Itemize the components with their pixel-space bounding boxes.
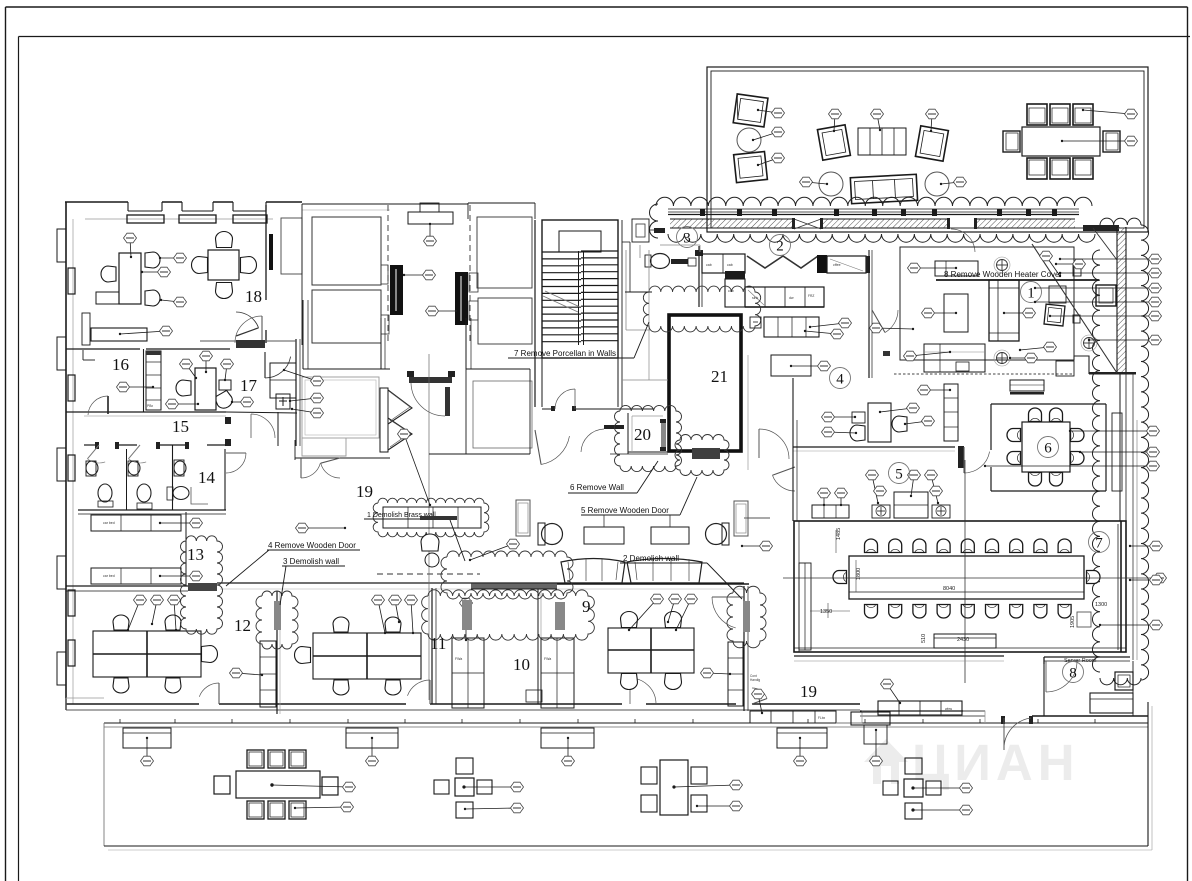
- lounge sofa B scalloped: [627, 559, 702, 584]
- cloud around rooms 20-21 door: [615, 405, 682, 471]
- conference chairs bottom row: [865, 605, 1072, 619]
- annotation 7 remove porcellan in walls: [508, 322, 649, 358]
- svg-text:ЦИАН: ЦИАН: [912, 734, 1080, 791]
- room 18 desk: [96, 253, 141, 304]
- svg-text:13: 13: [187, 545, 204, 564]
- tag outdoor B h: [696, 801, 743, 811]
- outdoor table cluster B vertical: [641, 760, 707, 815]
- kitchen-room4 wall: [869, 250, 872, 328]
- terrace armchair C center-left: [817, 125, 850, 160]
- server room bench: [1090, 693, 1133, 713]
- tag terrace dining chairs: [1082, 109, 1138, 119]
- svg-text:5 Remove Wooden Door: 5 Remove Wooden Door: [581, 506, 669, 515]
- left wall pilaster 3: [57, 448, 66, 481]
- tag bench left: [752, 689, 765, 714]
- svg-text:FLbx: FLbx: [818, 716, 825, 720]
- tag planter sill 3: [562, 737, 575, 766]
- top wall middle section with window: [302, 203, 535, 219]
- window planter sill 4: [777, 728, 827, 748]
- room 4 table: [771, 355, 811, 376]
- tag terrace armchair A: [757, 108, 785, 118]
- svg-text:19: 19: [800, 682, 817, 701]
- vestibule chevron entry door: [380, 388, 412, 452]
- room 6 walls: [991, 404, 1106, 491]
- cloud around demolish bar: [441, 551, 573, 599]
- radiator pier tabs: [381, 265, 478, 334]
- office partition wall room11-10: [432, 588, 436, 704]
- building corner dark piece top right: [1083, 225, 1119, 231]
- lounge table A: [584, 527, 624, 544]
- tag outdoor A h: [464, 803, 524, 813]
- outdoor dining table cluster left: [236, 771, 320, 798]
- room 17 desk: [195, 368, 216, 410]
- wc toilets room 15: [98, 484, 152, 509]
- room 1 armchair: [1044, 304, 1065, 326]
- bench with demolish brass wall cloud: [383, 507, 481, 528]
- folding doors at y455: [301, 458, 340, 478]
- room 17 right wall: [200, 339, 300, 446]
- terrace sofa: [850, 174, 917, 203]
- room 4 desk: [868, 403, 891, 442]
- hedge top band wall posts: [700, 209, 1057, 216]
- tag room5 t1: [866, 470, 880, 504]
- kitchen black fridge: [817, 255, 827, 273]
- tag outdoor C h: [912, 805, 973, 815]
- room 17 chairs: [176, 380, 235, 411]
- tag room1 t3: [1040, 251, 1062, 277]
- window planter sill 1 below bottom wall: [123, 728, 171, 748]
- svg-text:wbw: wbw: [945, 707, 952, 711]
- room 18 door to hall: [235, 316, 262, 343]
- stair break line diagonal: [543, 291, 580, 312]
- room 5 floor boxes with plus: [872, 505, 950, 518]
- diagonal leader short top: [1093, 228, 1117, 260]
- terrace boundary double rectangle: [707, 67, 1148, 232]
- svg-text:20: 20: [634, 425, 651, 444]
- room 13 cabinet row upper: [91, 515, 181, 531]
- cloud room 21 bottom door: [675, 435, 729, 476]
- demolish wall hatched bar long: [471, 583, 557, 589]
- lounge sofa A scalloped: [561, 559, 625, 584]
- demolish door dark fill room 13: [188, 583, 217, 591]
- hedge right band bottom cap: [1100, 678, 1141, 685]
- room 18 guest chair left: [101, 266, 116, 282]
- room 11 desk cluster: [313, 633, 421, 679]
- tag right mid: [1129, 541, 1163, 551]
- kitchen counter top row: [702, 254, 745, 273]
- terrace dining end chair left: [1003, 131, 1020, 152]
- lounge round chair left: [538, 523, 563, 545]
- conference dimension lines and texts: [810, 528, 1107, 643]
- main corridor door dark lintel: [407, 371, 455, 416]
- bottom wall right section server room front: [860, 711, 1148, 716]
- cloud room 12 door: [256, 591, 298, 649]
- tag room4 desk: [879, 403, 920, 413]
- door arc corridor room5: [772, 467, 795, 475]
- conference end chair right: [1087, 571, 1101, 584]
- tags room 12: [127, 595, 147, 631]
- tag room16 cabinet: [117, 382, 155, 392]
- outdoor cluster left end chairs: [214, 776, 338, 795]
- room label 1 circled: [1021, 282, 1042, 303]
- tag room17 t2: [221, 359, 234, 381]
- office door arcs on bottom wall: [199, 678, 767, 704]
- svg-text:10: 10: [513, 655, 530, 674]
- vestibule gray room: [302, 377, 379, 456]
- gray platform steps around benches: [836, 711, 985, 723]
- svg-text:cffee: cffee: [833, 263, 841, 267]
- room 18 wall bench: [82, 313, 147, 345]
- cloud left of room9 grey bars wide: [422, 590, 595, 640]
- room label 2 circled: [770, 235, 791, 256]
- office partition wall room10-9: [538, 588, 541, 704]
- center hall walls below room18: [303, 300, 530, 369]
- tag planter sill 4: [794, 737, 807, 766]
- storage room A right of closets: [477, 217, 532, 288]
- long diagonal leader across room 1: [1032, 244, 1117, 373]
- annotation 8 remove wooden heater cover: [936, 270, 1099, 280]
- tag terrace dining table: [1061, 136, 1138, 146]
- svg-text:19: 19: [356, 482, 373, 501]
- kitchen lower left column: [725, 279, 745, 307]
- tags column right of room 17: [283, 369, 324, 386]
- annotation 3 demolish wall: [280, 557, 345, 605]
- room 4 desk chair: [892, 416, 907, 432]
- conference chairs top row: [865, 539, 1072, 553]
- radiator black bar B: [455, 272, 468, 325]
- stair treads: [542, 251, 618, 342]
- terrace center coffee table: [858, 128, 906, 155]
- tag stool: [398, 429, 432, 506]
- tag room1 tl2: [1055, 259, 1086, 269]
- tag room4 cabinet top: [918, 385, 952, 395]
- bench row left on bottom wall: [750, 711, 836, 723]
- svg-text:FWa: FWa: [544, 657, 551, 661]
- armchair below bench: [421, 534, 439, 551]
- tag outdoor left chair: [294, 802, 354, 812]
- annotation 2 demolish wall: [620, 554, 742, 599]
- kitchen bottom counter row: [745, 287, 824, 307]
- svg-text:FRZ: FRZ: [808, 294, 814, 298]
- tag radiator A: [403, 270, 436, 280]
- room 5 cabinets row: [812, 492, 928, 518]
- conference room walls: [794, 521, 1126, 652]
- svg-text:8: 8: [1069, 666, 1077, 682]
- room 1 left wall: [869, 328, 872, 378]
- tag bench 19: [881, 679, 902, 704]
- tag room17 low: [166, 399, 200, 409]
- svg-text:3: 3: [683, 231, 691, 247]
- room 9 desk cluster: [608, 628, 694, 673]
- room 17 small table: [219, 380, 231, 390]
- room label 6 circled: [1038, 437, 1059, 458]
- room 18 square meeting table: [208, 250, 239, 280]
- tags room 9 desks: [628, 594, 664, 631]
- plus box fixture: [276, 394, 290, 409]
- svg-text:car bed: car bed: [103, 521, 115, 525]
- room 17 closet: [270, 363, 296, 398]
- terrace armchair B left-lower: [734, 152, 768, 183]
- room 4 sideboard: [764, 317, 819, 337]
- hedge right corner joiner: [1100, 218, 1141, 225]
- top wall window sill 1: [127, 215, 164, 223]
- bottom exterior balustrade line: [104, 719, 1148, 727]
- tag room13 lower: [159, 571, 203, 581]
- room 1 small floor box: [883, 351, 890, 356]
- svg-text:15: 15: [172, 417, 189, 436]
- tag conference right: [1154, 573, 1167, 583]
- tag room11 c: [405, 595, 418, 634]
- room 6 square table: [1022, 422, 1070, 472]
- corridor double lines right of stairs: [648, 250, 650, 292]
- kitchen right wall dark bar: [866, 256, 870, 273]
- conference room glass strip left: [799, 563, 811, 650]
- room 1 boundary: [894, 247, 1136, 375]
- room 18 radiator on right wall: [269, 234, 273, 270]
- door arcs top area: [535, 430, 569, 464]
- tag room5 d: [908, 470, 921, 497]
- room 16 door: [88, 396, 108, 415]
- tag room11 b: [389, 595, 402, 623]
- hedge band along top wall - upper scallop edge: [656, 197, 1092, 206]
- tags room4 left: [822, 412, 857, 422]
- tag room18 chair3: [160, 297, 187, 307]
- left wall pilaster 1: [57, 229, 66, 262]
- tag terrace side table left: [800, 177, 829, 187]
- tag sill center: [424, 223, 437, 246]
- hedge band top - lower scallop edge: [668, 234, 1095, 242]
- tag right 580: [1129, 575, 1163, 585]
- tag room13 upper: [159, 518, 203, 528]
- tag room10 cab2: [460, 598, 473, 641]
- svg-text:cab: cab: [706, 263, 712, 267]
- room 16 17 divider wall: [143, 349, 145, 412]
- left wall pilaster 2: [57, 337, 66, 370]
- window planter sill 3: [541, 728, 594, 748]
- window planter sill 2: [346, 728, 398, 748]
- hedge band right side - outer scallop edge: [1141, 225, 1149, 680]
- room 18 desk chairs right: [145, 252, 160, 306]
- tag room1 left edge: [870, 323, 915, 333]
- svg-text:14: 14: [198, 468, 216, 487]
- wall segment right of stairs y292: [625, 291, 652, 293]
- lounge table B: [651, 527, 689, 544]
- room 11 left chair: [295, 647, 311, 664]
- svg-text:12: 12: [234, 616, 251, 635]
- svg-text:4 Remove Wooden Door: 4 Remove Wooden Door: [268, 541, 356, 550]
- conference dim arrow left: [786, 591, 850, 593]
- outdoor square cluster A: [434, 758, 492, 818]
- outdoor deck left boundary: [66, 698, 104, 846]
- hedge band top - left end cap: [650, 204, 659, 238]
- stair shaft outline: [535, 220, 622, 407]
- cloud room 13 tall: [181, 536, 223, 634]
- room 13 cabinet row lower: [91, 568, 181, 584]
- right exterior wall hatched segment: [1117, 227, 1126, 374]
- svg-text:car bed: car bed: [103, 574, 115, 578]
- room 1 tv cabinet: [935, 261, 978, 276]
- door corridor 19 arc: [251, 414, 275, 438]
- room10 small printer: [526, 690, 542, 702]
- room 18 right wall: [265, 205, 267, 343]
- tag outdoor A t: [463, 782, 524, 792]
- tag terrace armchair B: [757, 153, 785, 166]
- tag right lower3: [984, 461, 1160, 471]
- kitchen dark appliance strip: [725, 271, 745, 279]
- svg-text:510: 510: [921, 634, 927, 643]
- wc stall doors: [87, 445, 146, 463]
- hall lines below hedge: [660, 245, 700, 252]
- svg-text:PBx: PBx: [147, 404, 153, 408]
- terrace door arc second gap: [947, 218, 977, 252]
- conference end chair left: [833, 571, 847, 584]
- room 21 door dark fill bottom: [692, 448, 720, 459]
- conference centerline vertical: [964, 460, 966, 683]
- kitchen right counter: [827, 256, 866, 273]
- wall under lounge sofas: [540, 583, 749, 585]
- svg-text:3 Demolish wall: 3 Demolish wall: [283, 557, 339, 566]
- annotation 5 remove wooden door: [581, 477, 697, 527]
- tag room4 h2: [822, 427, 858, 437]
- tag outdoor bench: [870, 729, 883, 766]
- tag room1 tv: [908, 263, 958, 273]
- annotation 1 demolish brass wall: [364, 512, 465, 561]
- outdoor deck right boundary: [1148, 702, 1152, 850]
- tub chair outside room 1 right: [1096, 285, 1116, 306]
- tag radiator B: [426, 306, 458, 316]
- room 3 fixtures: [645, 254, 696, 269]
- tag room1 table: [922, 308, 958, 318]
- room 4 tall cabinet: [944, 384, 958, 441]
- wc block partition walls: [78, 445, 226, 514]
- svg-text:11: 11: [430, 634, 446, 653]
- tag room1 tl: [1009, 353, 1038, 363]
- svg-text:1905: 1905: [1070, 616, 1076, 628]
- door left of room 20: [581, 425, 624, 452]
- office corridor wall y588: [217, 583, 744, 589]
- svg-text:FWa: FWa: [455, 657, 462, 661]
- door jambs corridor 15 right: [225, 417, 231, 446]
- terrace dining end chair right: [1103, 131, 1120, 152]
- tag room5 tl2: [930, 486, 943, 496]
- svg-text:1: 1: [1027, 286, 1035, 302]
- left exterior wall: [66, 202, 73, 710]
- tag room18 chair1: [159, 253, 187, 263]
- tag planter sill 1: [141, 737, 154, 766]
- cabinet right wall of room9: [728, 642, 743, 706]
- planter box left: [516, 500, 530, 536]
- svg-text:dw: dw: [789, 296, 794, 300]
- corridor 15 bottom wall / wc top wall: [84, 442, 226, 449]
- server room chair: [1115, 672, 1133, 690]
- small wc near stairs top: [632, 219, 649, 242]
- room 20 grey door bar: [660, 419, 666, 451]
- door arc right of room 21: [759, 429, 789, 459]
- tag terrace table left: [752, 127, 785, 141]
- left wall pilaster 5: [57, 652, 66, 685]
- svg-text:5: 5: [895, 467, 903, 483]
- wall room4 - room5 horizontal: [744, 446, 964, 518]
- terrace dining chairs bottom row: [1027, 158, 1093, 179]
- room 4 guest chair: [850, 425, 865, 441]
- room 20 walls: [600, 409, 668, 454]
- lounge round chair right: [706, 523, 730, 545]
- room 10 cabinet left: [452, 638, 484, 708]
- bench room 19 lower: [878, 701, 962, 715]
- wc room 15 washbasins: [86, 461, 140, 476]
- tag17 t: [289, 393, 324, 403]
- round stool: [425, 553, 439, 567]
- corridor grid line vertical: [428, 354, 430, 700]
- room 6 chairs: [1007, 408, 1084, 486]
- room 1 lower cabinet: [924, 344, 985, 372]
- room19 lower gray rooms: [295, 369, 532, 460]
- room 13 walls: [66, 512, 188, 591]
- room 4 small square table: [852, 412, 865, 423]
- svg-text:17: 17: [240, 376, 258, 395]
- kitchen pantry zigzag shelving: [747, 256, 818, 268]
- tag room17 h1: [180, 359, 198, 379]
- outdoor square cluster C: [883, 758, 941, 819]
- tag room1 t2: [1019, 342, 1057, 352]
- kitchen left wall: [695, 246, 703, 307]
- room 1 coffee table: [944, 294, 968, 332]
- planter box right: [734, 501, 748, 536]
- stair center stringer: [579, 251, 584, 345]
- room 10 cabinet right: [541, 638, 574, 708]
- outdoor cluster left chairs top: [247, 750, 306, 768]
- tag column right edge: [0, 0, 1, 1]
- terrace round side table left of sofa: [819, 172, 843, 196]
- tag planter sill 2: [366, 737, 379, 766]
- door in bottom wall near server room: [1001, 716, 1033, 750]
- room 19 upper closet walls: [281, 204, 381, 345]
- door arc room5 to room6: [963, 447, 965, 473]
- svg-text:8040: 8040: [943, 586, 955, 592]
- tiny text cont handling: [750, 674, 760, 682]
- tag outdoor left table: [271, 782, 356, 792]
- room label 3 circled: [677, 227, 698, 248]
- stair vestibule door bottom: [542, 389, 618, 411]
- room 3 boundary gray: [626, 245, 650, 330]
- stair upper landing: [559, 231, 601, 252]
- tag right lower1: [1069, 426, 1160, 436]
- svg-text:2430: 2430: [957, 637, 969, 643]
- tag room9 b: [667, 594, 682, 623]
- room 1 ceiling symbols circled plus: [994, 257, 1097, 366]
- room 21 heavy wall rectangle: [669, 315, 741, 451]
- room label 5 circled: [889, 463, 910, 484]
- tag outdoor B t: [673, 780, 743, 790]
- tags room 11: [372, 595, 387, 634]
- svg-text:Server Room: Server Room: [1064, 658, 1097, 664]
- door arc kitchen to room4: [872, 310, 885, 333]
- svg-text:4: 4: [836, 372, 844, 388]
- room 18 meeting chairs: [192, 232, 257, 299]
- dark bar left of hedge: [649, 228, 665, 233]
- room 1 sofa: [989, 280, 1019, 341]
- window sill box top center: [408, 203, 453, 224]
- dashed demolished wall line y574: [377, 573, 480, 575]
- wc room 14 fixtures: [167, 460, 208, 504]
- tall cabinet room 12 right: [260, 641, 276, 707]
- tags room 5: [818, 488, 831, 506]
- door arc room9 right: [712, 596, 744, 598]
- tag room5 tl1: [874, 486, 887, 496]
- svg-text:18: 18: [245, 287, 262, 306]
- svg-text:6 Remove Wall: 6 Remove Wall: [570, 483, 624, 492]
- room 12 desk cluster: [93, 631, 201, 677]
